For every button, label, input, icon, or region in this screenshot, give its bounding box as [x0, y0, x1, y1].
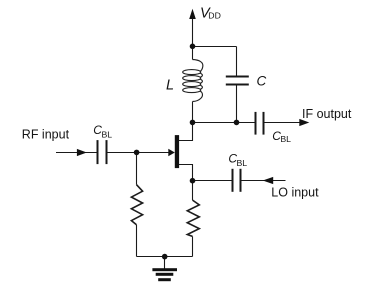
- svg-text:L: L: [166, 78, 174, 94]
- svg-text:RF input: RF input: [22, 127, 70, 141]
- svg-text:BL: BL: [102, 130, 113, 140]
- svg-text:C: C: [257, 74, 267, 89]
- svg-text:BL: BL: [237, 158, 248, 168]
- svg-text:DD: DD: [208, 11, 221, 21]
- svg-text:LO input: LO input: [271, 186, 319, 200]
- svg-text:IF output: IF output: [302, 107, 352, 121]
- svg-text:BL: BL: [280, 134, 291, 144]
